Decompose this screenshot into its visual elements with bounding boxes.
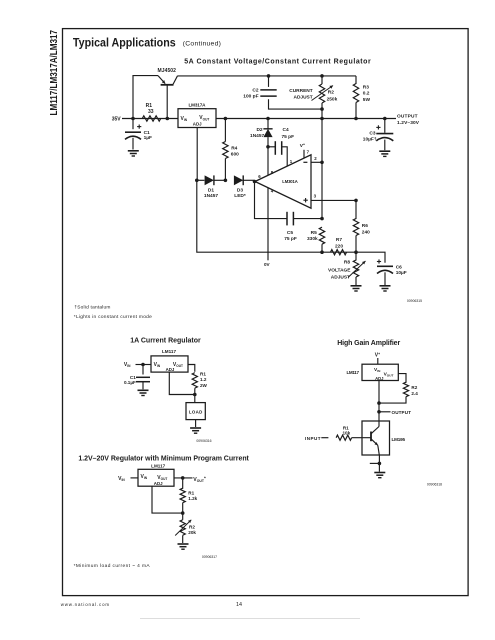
- svg-text:LM317A: LM317A: [189, 103, 207, 108]
- wire emitter to ground (hga): [378, 455, 380, 463]
- pin label ADJ inside (hga): [375, 376, 384, 381]
- svg-text:20k: 20k: [188, 530, 196, 535]
- label LM117 (minreg): [151, 463, 165, 468]
- faint page-bottom scan line: [140, 618, 360, 620]
- svg-text:LM117: LM117: [162, 349, 176, 354]
- ground under R2 (minreg): [178, 544, 189, 549]
- svg-text:D3: D3: [237, 187, 243, 193]
- transistor Q1 inside LM195 box: [371, 421, 379, 455]
- svg-text:LOAD: LOAD: [189, 410, 203, 415]
- pin label VOUT (U1): [199, 115, 209, 121]
- svg-text:C4: C4: [283, 127, 289, 133]
- resistor R2 2.4 (hga): [379, 382, 409, 403]
- capacitor C1 0.1uF (1A reg): [136, 365, 150, 390]
- label INPUT (hga): [305, 436, 321, 441]
- circuit 3 title: High Gain Amplifier: [337, 340, 400, 347]
- diode D2 (1N457) vertical: [263, 119, 272, 147]
- section title Typical Applications: [73, 35, 176, 49]
- svg-text:VOUT*: VOUT*: [193, 475, 206, 483]
- svg-text:1N457: 1N457: [250, 133, 264, 139]
- wire output rail LM317A VOUT to OUTPUT: [216, 118, 396, 120]
- node pin3 junction: [354, 199, 358, 203]
- node R4 top: [224, 117, 228, 121]
- label VOUT* (minreg): [193, 475, 206, 483]
- svg-text:LM195: LM195: [392, 437, 406, 442]
- label R4 value: [231, 145, 239, 157]
- label C1 plus: [137, 125, 141, 129]
- svg-text:R1: R1: [200, 371, 206, 376]
- footer url www.national.com: [61, 602, 110, 607]
- label D3 value: [234, 187, 246, 199]
- svg-text:1µF: 1µF: [144, 135, 152, 141]
- node C5/R5 junction: [320, 217, 324, 221]
- ground under C1: [128, 151, 139, 156]
- footnote solid tantalum: [74, 304, 110, 310]
- diode D1 (1N457): [197, 175, 226, 185]
- svg-text:LM117/LM317A/LM317: LM117/LM317A/LM317: [48, 30, 60, 116]
- label R5 value: [307, 230, 318, 242]
- label CURRENT ADJUST: [289, 88, 313, 101]
- node C2 top junction: [267, 74, 271, 78]
- svg-text:VIN: VIN: [374, 367, 381, 373]
- pin number 1: [290, 159, 293, 164]
- pin label ADJ inside (1A reg): [166, 367, 175, 372]
- svg-text:V+: V+: [300, 142, 305, 149]
- node R2/pin2 riser: [320, 117, 324, 121]
- svg-text:D2: D2: [256, 127, 262, 133]
- svg-text:5A Constant Voltage/Constant C: 5A Constant Voltage/Constant Current Reg…: [184, 58, 371, 65]
- svg-text:1.2k: 1.2k: [188, 496, 197, 501]
- svg-text:ADJUST: ADJUST: [331, 275, 350, 281]
- label LM195: [392, 437, 406, 442]
- svg-text:V+: V+: [375, 352, 380, 359]
- svg-text:R2: R2: [411, 385, 417, 390]
- svg-text:2W: 2W: [200, 383, 208, 388]
- wire ADJ loop (minreg): [152, 486, 183, 513]
- svg-text:1N457: 1N457: [204, 193, 218, 199]
- ground under LOAD (1A reg): [190, 428, 201, 433]
- svg-text:R2: R2: [189, 524, 195, 529]
- node R5 bottom junction: [320, 250, 324, 254]
- input label VIN (1A reg): [124, 362, 131, 368]
- svg-text:33: 33: [148, 109, 154, 115]
- capacitor C4 (75 pF): [268, 141, 287, 166]
- svg-text:VOUT: VOUT: [157, 475, 167, 481]
- svg-text:Typical Applications: Typical Applications: [73, 35, 176, 49]
- svg-text:1.2: 1.2: [200, 377, 207, 382]
- wire ADJ down (hga): [378, 381, 380, 422]
- transistor Q1 MJ4502 (PNP pass): [158, 76, 178, 119]
- pin 2 inverting input wire: [303, 156, 322, 162]
- label R3 value: [363, 85, 371, 103]
- ground under R8: [351, 286, 362, 291]
- footnote LED lights: [74, 314, 152, 320]
- pin label ADJ inside (minreg): [154, 481, 163, 486]
- circuit 4 title: 1.2V-20V Regulator with Minimum Program Current: [78, 456, 249, 463]
- ground under C6: [380, 286, 391, 291]
- label LOAD: [189, 410, 203, 415]
- pin label VIN inside (hga): [374, 367, 381, 373]
- node C1 branch (1A reg): [141, 363, 145, 367]
- wire ADJ lead down: [196, 128, 198, 181]
- svg-text:*Minimum load current ~ 4 mA: *Minimum load current ~ 4 mA: [74, 563, 151, 569]
- label R1 value: [146, 103, 154, 115]
- node emitter/ground junction (hga): [378, 462, 382, 466]
- circuit 2 title: 1A Current Regulator: [130, 338, 201, 345]
- label MJ4502: [157, 68, 176, 74]
- svg-text:OUTPUT: OUTPUT: [392, 410, 412, 415]
- regulator U1 LM117 box (hga): [362, 364, 398, 380]
- resistor R4 (600): [223, 119, 228, 181]
- node R2 bottom junction: [320, 107, 324, 111]
- svg-text:10µF: 10µF: [396, 270, 407, 276]
- label C1 value: [144, 130, 152, 141]
- wire case stub (hga): [370, 462, 380, 464]
- ground under C3: [379, 151, 390, 156]
- svg-text:600: 600: [231, 152, 239, 158]
- label R8: [344, 260, 350, 266]
- node R3 bottom / R6 riser: [354, 117, 358, 121]
- resistor R6 (240): [353, 200, 358, 252]
- potentiometer R8 voltage adjust: [353, 252, 358, 285]
- page frame border: [63, 29, 469, 596]
- svg-text:OUTPUT: OUTPUT: [397, 113, 418, 119]
- svg-text:C6: C6: [396, 264, 402, 270]
- wire VOUT to output (minreg): [174, 477, 193, 479]
- svg-text:00906316: 00906316: [196, 439, 211, 443]
- load box (1A reg): [186, 403, 205, 420]
- svg-text:ADJ: ADJ: [154, 481, 163, 486]
- wire VOUT to R1 (1A reg): [188, 365, 195, 372]
- svg-text:75 pF: 75 pF: [284, 236, 297, 242]
- regulator U1 LM317A box: [178, 109, 216, 128]
- label V+: [300, 142, 305, 149]
- svg-text:250k: 250k: [327, 96, 338, 102]
- svg-text:High Gain Amplifier: High Gain Amplifier: [337, 340, 400, 347]
- wire INPUT to R1 (hga): [321, 437, 328, 439]
- svg-text:2.4: 2.4: [411, 391, 418, 396]
- svg-text:VIN: VIN: [154, 362, 161, 368]
- svg-text:0V: 0V: [264, 262, 271, 267]
- svg-text:R7: R7: [336, 237, 342, 243]
- footer page number 14: [236, 602, 242, 608]
- wire VOUT to R2 (hga): [398, 374, 406, 383]
- pin label VIN inside (minreg): [141, 474, 148, 480]
- label R2 value (minreg): [188, 524, 196, 535]
- node R2 top junction: [320, 74, 324, 78]
- svg-text:R2: R2: [328, 89, 334, 95]
- label D2 value: [250, 127, 264, 139]
- capacitor C6 (10uF): [377, 266, 393, 285]
- svg-text:LM117: LM117: [347, 370, 360, 375]
- pin number 6: [258, 174, 261, 179]
- svg-text:240: 240: [362, 229, 370, 235]
- pin label VIN (U1): [181, 116, 188, 122]
- regulator U1 LM117 box (minreg): [138, 469, 174, 486]
- svg-text:VOUT: VOUT: [173, 362, 183, 368]
- svg-text:VIN: VIN: [118, 476, 125, 482]
- potentiometer R2 (250k) current adjust: [319, 76, 324, 119]
- pin number 8: [271, 170, 274, 175]
- footnote minimum load current: [74, 563, 151, 569]
- svg-text:00906317: 00906317: [202, 555, 217, 559]
- wire ADJ loop (1A reg): [169, 372, 195, 394]
- figure number 00906316: [196, 439, 211, 443]
- pin label VOUT inside (minreg): [157, 475, 167, 481]
- label VOLTAGE ADJUST: [328, 268, 351, 281]
- svg-text:5W: 5W: [363, 97, 371, 103]
- potentiometer R2 20k (minreg): [180, 513, 185, 543]
- label LM317A: [189, 103, 207, 108]
- svg-text:LED*: LED*: [234, 193, 246, 199]
- pin label ADJ (U1): [193, 121, 202, 126]
- svg-text:C5: C5: [287, 230, 293, 236]
- label 0V terminal: [264, 262, 271, 267]
- label C3 value: [363, 131, 377, 143]
- label LM117 (hga): [347, 370, 360, 375]
- svg-text:C3: C3: [369, 131, 375, 137]
- node pin2 junction: [320, 161, 324, 165]
- figure number 00906315: [407, 299, 422, 303]
- svg-text:14: 14: [236, 602, 242, 608]
- svg-text:VIN: VIN: [141, 474, 148, 480]
- node 35V input label: [112, 117, 122, 123]
- circuit 1 title: 5A Constant Voltage/Constant Current Regulator: [184, 58, 371, 65]
- svg-text:R4: R4: [231, 145, 237, 151]
- arrow R2 wiper (minreg): [175, 520, 191, 536]
- svg-text:R1: R1: [188, 490, 194, 495]
- svg-text:R8: R8: [344, 260, 350, 266]
- svg-text:220: 220: [335, 243, 343, 249]
- svg-text:www.national.com: www.national.com: [61, 602, 110, 607]
- svg-text:R5: R5: [311, 230, 317, 236]
- svg-text:VOLTAGE: VOLTAGE: [328, 268, 351, 274]
- label C5 value: [284, 230, 297, 242]
- svg-text:00906318: 00906318: [427, 482, 442, 486]
- label OUTPUT 1.2V-30V: [397, 113, 420, 125]
- figure number 00906318: [427, 482, 442, 486]
- pin label VOUT inside (hga): [384, 371, 394, 377]
- svg-text:2: 2: [314, 156, 317, 161]
- svg-text:3: 3: [314, 194, 317, 199]
- svg-text:(Continued): (Continued): [183, 40, 221, 47]
- ground under LM195 (hga): [374, 463, 385, 477]
- svg-text:1A Current Regulator: 1A Current Regulator: [130, 338, 201, 345]
- label R1 value (1A reg): [200, 371, 208, 387]
- capacitor C2 (100 pF): [260, 76, 322, 109]
- pin number 4 and lead to 0V: [268, 188, 274, 261]
- node R4 bottom junction: [224, 179, 228, 183]
- diode D3 (LED): [234, 175, 255, 185]
- wire emitter riser and top rail to transistor: [133, 76, 158, 119]
- capacitor C3 (10uF output): [376, 119, 393, 151]
- resistor R1 1.2k (minreg): [180, 478, 185, 513]
- svg-text:0.1µF: 0.1µF: [124, 380, 136, 385]
- resistor R7 (220) horizontal: [331, 250, 347, 255]
- label OUTPUT (hga): [392, 410, 412, 415]
- svg-text:C2: C2: [252, 88, 258, 94]
- label R7 value: [335, 237, 343, 249]
- svg-text:LM301A: LM301A: [282, 179, 298, 184]
- label LM301A: [282, 179, 298, 184]
- pin label VIN inside (1A reg): [154, 362, 161, 368]
- pin 3 non-inverting input wire: [303, 194, 356, 203]
- label C1 value (1A reg): [124, 375, 136, 385]
- svg-text:LM117: LM117: [151, 463, 165, 468]
- wire input to box (minreg): [131, 477, 139, 479]
- svg-text:ADJ: ADJ: [193, 121, 202, 126]
- wire pin2/R5 riser: [321, 119, 323, 219]
- svg-text:VIN: VIN: [124, 362, 131, 368]
- label C6 value: [396, 264, 407, 276]
- svg-text:0.2: 0.2: [363, 91, 370, 97]
- svg-text:7: 7: [307, 149, 310, 154]
- svg-text:35V: 35V: [112, 117, 122, 123]
- input label VIN (minreg): [118, 476, 125, 482]
- label R6 value: [362, 223, 370, 235]
- node C3 junction: [383, 117, 387, 121]
- svg-text:ADJ: ADJ: [375, 376, 384, 381]
- node R1/R2/ADJ junction (minreg): [181, 511, 185, 515]
- node D2 top: [266, 117, 270, 121]
- wire input 35V to LM317A VIN: [122, 118, 178, 120]
- svg-text:00906315: 00906315: [407, 299, 422, 303]
- svg-text:1.2V–30V: 1.2V–30V: [397, 120, 420, 126]
- node pin6 junction: [253, 180, 257, 184]
- regulator U1 LM117 box (1A reg): [151, 356, 188, 372]
- svg-text:100 pF: 100 pF: [243, 94, 258, 100]
- label R2 value: [327, 89, 338, 102]
- pin number 7 and V+ lead: [304, 149, 310, 158]
- label C6 plus: [377, 259, 381, 263]
- svg-text:R3: R3: [363, 85, 369, 91]
- resistor R1 1.2 2W (1A reg): [192, 373, 197, 403]
- svg-text:*Lights in constant current mo: *Lights in constant current mode: [74, 314, 152, 320]
- wire input to box (1A reg): [136, 364, 152, 366]
- resistor R1 10k (hga): [336, 435, 371, 440]
- resistor R1 (33) zigzag: [142, 116, 160, 121]
- section title (Continued): [183, 40, 221, 47]
- node R6/R7/R8 junction: [354, 250, 358, 254]
- svg-text:75 pF: 75 pF: [282, 134, 295, 140]
- figure number 00906317: [202, 555, 217, 559]
- node junction R1/base: [166, 117, 170, 121]
- label R1 value (hga): [342, 425, 350, 435]
- wire V+ to box (hga): [377, 358, 379, 364]
- svg-text:ADJUST: ADJUST: [293, 95, 312, 101]
- node ADJ/D1 junction: [195, 179, 199, 183]
- resistor R5 (330k): [319, 227, 324, 252]
- wire to C6: [356, 252, 385, 263]
- wire bottom rail 0V: [197, 180, 356, 252]
- label R1 value (minreg): [188, 490, 197, 501]
- svg-text:R1: R1: [343, 425, 349, 430]
- node junction input/C1/emitter: [131, 117, 135, 121]
- svg-text:†Solid tantalum: †Solid tantalum: [74, 304, 110, 310]
- svg-text:MJ4502: MJ4502: [157, 68, 176, 74]
- svg-text:330k: 330k: [307, 236, 318, 242]
- svg-text:10k: 10k: [342, 431, 350, 436]
- svg-text:ADJ: ADJ: [166, 367, 175, 372]
- arrow R8 wiper: [348, 261, 366, 278]
- label D1 value: [204, 187, 218, 199]
- ground under C1 (1A reg): [138, 390, 149, 395]
- label C3 plus: [376, 125, 380, 129]
- svg-text:VOUT: VOUT: [199, 115, 209, 121]
- capacitor C5 (75 pF) feedback: [255, 182, 323, 226]
- svg-text:R6: R6: [362, 223, 368, 229]
- label LM117 (1A reg): [162, 349, 176, 354]
- arrow R2 wiper: [312, 86, 334, 101]
- wire pin8 lead: [267, 147, 269, 175]
- transistor box LM195 (hga): [362, 421, 390, 455]
- sidebar part number LM117/LM317A/LM317 (rotated): [48, 30, 60, 116]
- node R2/ADJ junction (hga): [377, 401, 381, 405]
- wire OUTPUT stub (hga): [379, 411, 391, 413]
- svg-text:VIN: VIN: [181, 116, 188, 122]
- capacitor C1 (1 uF solid tantalum): [125, 119, 141, 150]
- op-amp U2 LM301A triangle: [255, 155, 311, 208]
- svg-text:VOUT: VOUT: [384, 371, 394, 377]
- svg-text:1.2V–20V Regulator with Minimu: 1.2V–20V Regulator with Minimum Program …: [78, 456, 249, 463]
- node D2/C4/pin8 junction: [266, 145, 270, 149]
- svg-text:10µF†: 10µF†: [363, 137, 377, 143]
- node R1/ADJ/LOAD junction (1A reg): [193, 393, 197, 397]
- wire collector top rail: [178, 75, 357, 77]
- pin label VOUT inside (1A reg): [173, 362, 183, 368]
- node OUTPUT tap (hga): [377, 410, 381, 414]
- label C4 value: [282, 127, 295, 140]
- node R1 branch (minreg): [181, 476, 185, 480]
- label V+ supply (hga): [375, 352, 380, 359]
- label C2 value: [243, 88, 259, 100]
- wire LOAD to ground (1A reg): [195, 420, 197, 427]
- svg-text:INPUT: INPUT: [305, 436, 321, 441]
- label R2 value (hga): [411, 385, 418, 396]
- resistor R3 (0.2 5W) sense: [353, 76, 358, 119]
- svg-text:CURRENT: CURRENT: [289, 88, 313, 94]
- svg-text:D1: D1: [208, 187, 214, 193]
